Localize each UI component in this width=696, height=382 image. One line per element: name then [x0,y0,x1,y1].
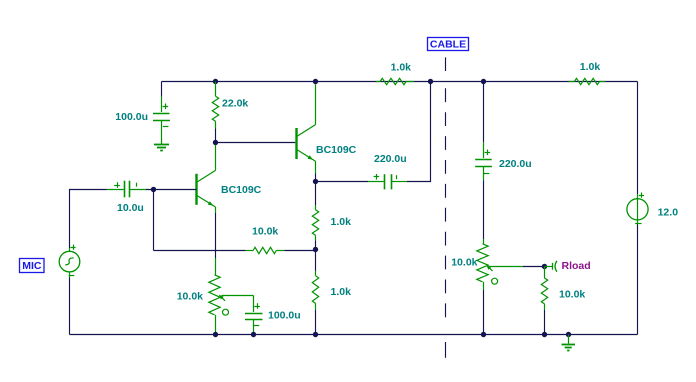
net label MIC [20,259,45,273]
svg-text:1.0k: 1.0k [580,61,601,73]
value label 10.0k (R7) [559,289,585,301]
node top rail / C3 branch [428,79,433,84]
node R1 / Q1 collector / Q2 base [213,140,218,145]
capacitor C1 100.0u [153,96,170,144]
svg-text:BC109C: BC109C [316,144,357,156]
wire R3 to mid node [315,240,317,249]
capacitor C2 10.0u [107,181,146,198]
net label CABLE [428,38,469,51]
value label 12.0 (V2) [658,207,679,219]
value label 1.0k (R6) [580,61,601,73]
svg-text:1.0k: 1.0k [331,286,352,298]
svg-text:12.0: 12.0 [658,207,679,219]
value label 100.0u (C4) [268,309,301,321]
svg-text:1.0k: 1.0k [331,216,352,228]
resistor R7 10.0k [541,267,547,310]
resistor R5 1.0k [376,78,414,84]
wire feedback vertical [153,190,155,251]
value label 10.0k (P2) [451,257,477,269]
value label 1.0k (R4) [331,286,352,298]
value label 220.0u (C3) [374,153,407,165]
capacitor C3 220.0u [368,174,407,189]
svg-text:1.0k: 1.0k [391,61,412,73]
wire right branch down to C5 [483,82,485,143]
node Q2 emitter [313,179,318,184]
wire top rail [162,81,638,83]
wire top rail right corner down [637,82,639,195]
wire Q2 emitter to node [315,174,317,182]
wire P2 to bottom rail [483,290,485,335]
source V1 MIC signal source [59,245,80,278]
value label 10.0u (C2) [117,202,144,214]
svg-text:Rload: Rload [562,260,591,272]
node Rload [542,264,547,269]
node P1 / bottom rail [213,332,218,337]
svg-text:MIC: MIC [22,260,42,272]
svg-text:10.0k: 10.0k [252,226,278,238]
value label 10.0k (R2) [252,226,278,238]
capacitor C5 220.0u [475,142,492,180]
node R7 / bottom rail [542,332,547,337]
wire P2 wiper to Rload node [523,266,545,268]
wire C2 to base node [146,189,197,191]
value label 22.0k (R1) [222,98,248,110]
node C2 / Q1 base / feedback [151,187,156,192]
svg-text:100.0u: 100.0u [115,111,148,123]
wire Q2 emitter to C3 [316,181,369,183]
wire R1 to node [215,129,217,143]
wire Q1 emitter down [215,213,217,258]
resistor R6 1.0k [569,78,606,84]
wire V2 to bottom rail [637,225,639,335]
svg-text:220.0u: 220.0u [499,158,532,170]
cable boundary dashed line [445,57,447,357]
value label 10.0k (P1) [177,291,203,303]
resistor R3 1.0k [312,205,318,240]
node top rail / right branch [481,79,486,84]
part label BC109C (Q2) [316,144,357,156]
node C4 / bottom rail [251,332,256,337]
wire mid node to R4 [315,250,317,271]
wire feedback horizontal right [284,250,315,252]
svg-text:BC109C: BC109C [221,184,262,196]
wire MIC top corner [70,190,107,249]
svg-text:CABLE: CABLE [430,39,466,51]
potentiometer P1 10.0k [209,258,254,335]
net label Rload [562,260,591,272]
wire C3 up to rail [407,82,431,182]
ground (under C1) [154,145,169,151]
resistor R2 10.0k [246,247,285,253]
resistor R1 22.0k [212,82,218,129]
svg-text:100.0u: 100.0u [268,309,301,321]
wire C5 to P2 [483,180,485,239]
wire R4 to bottom rail [315,310,317,335]
wire Q2 emitter node to R3 [315,182,317,206]
wire rail drop to C1 [161,82,163,97]
node ground / bottom rail [566,332,571,337]
node R3 / R4 / feedback [313,247,318,252]
resistor R4 1.0k [312,271,318,310]
transistor Q2 BC109C [297,84,316,173]
node top rail / R1 [213,79,218,84]
svg-text:10.0k: 10.0k [559,289,585,301]
wire R7 to bottom rail [544,310,546,335]
svg-text:220.0u: 220.0u [374,153,407,165]
wire MIC to bottom rail [69,278,71,335]
svg-text:10.0k: 10.0k [177,291,203,303]
node top rail / Q2 collector [313,79,318,84]
wire feedback horizontal left [154,250,246,252]
net flag Rload [545,261,557,272]
wire Q2 base [216,142,296,144]
source V2 12V supply [627,193,648,225]
potentiometer P2 10.0k [477,239,523,290]
value label 100.0u (C1) [115,111,148,123]
svg-text:10.0k: 10.0k [451,257,477,269]
capacitor C4 100.0u [245,303,263,334]
svg-text:22.0k: 22.0k [222,98,248,110]
value label 1.0k (R3) [331,216,352,228]
ground (bottom rail) [562,335,576,351]
svg-text:10.0u: 10.0u [117,202,144,214]
part label BC109C (Q1) [221,184,262,196]
node P2 / bottom rail [481,332,486,337]
transistor Q1 BC109C [197,145,216,213]
value label 220.0u (C5) [499,158,532,170]
node R4 / bottom rail [313,332,318,337]
wire bottom rail [70,334,638,336]
value label 1.0k (R5) [391,61,412,73]
